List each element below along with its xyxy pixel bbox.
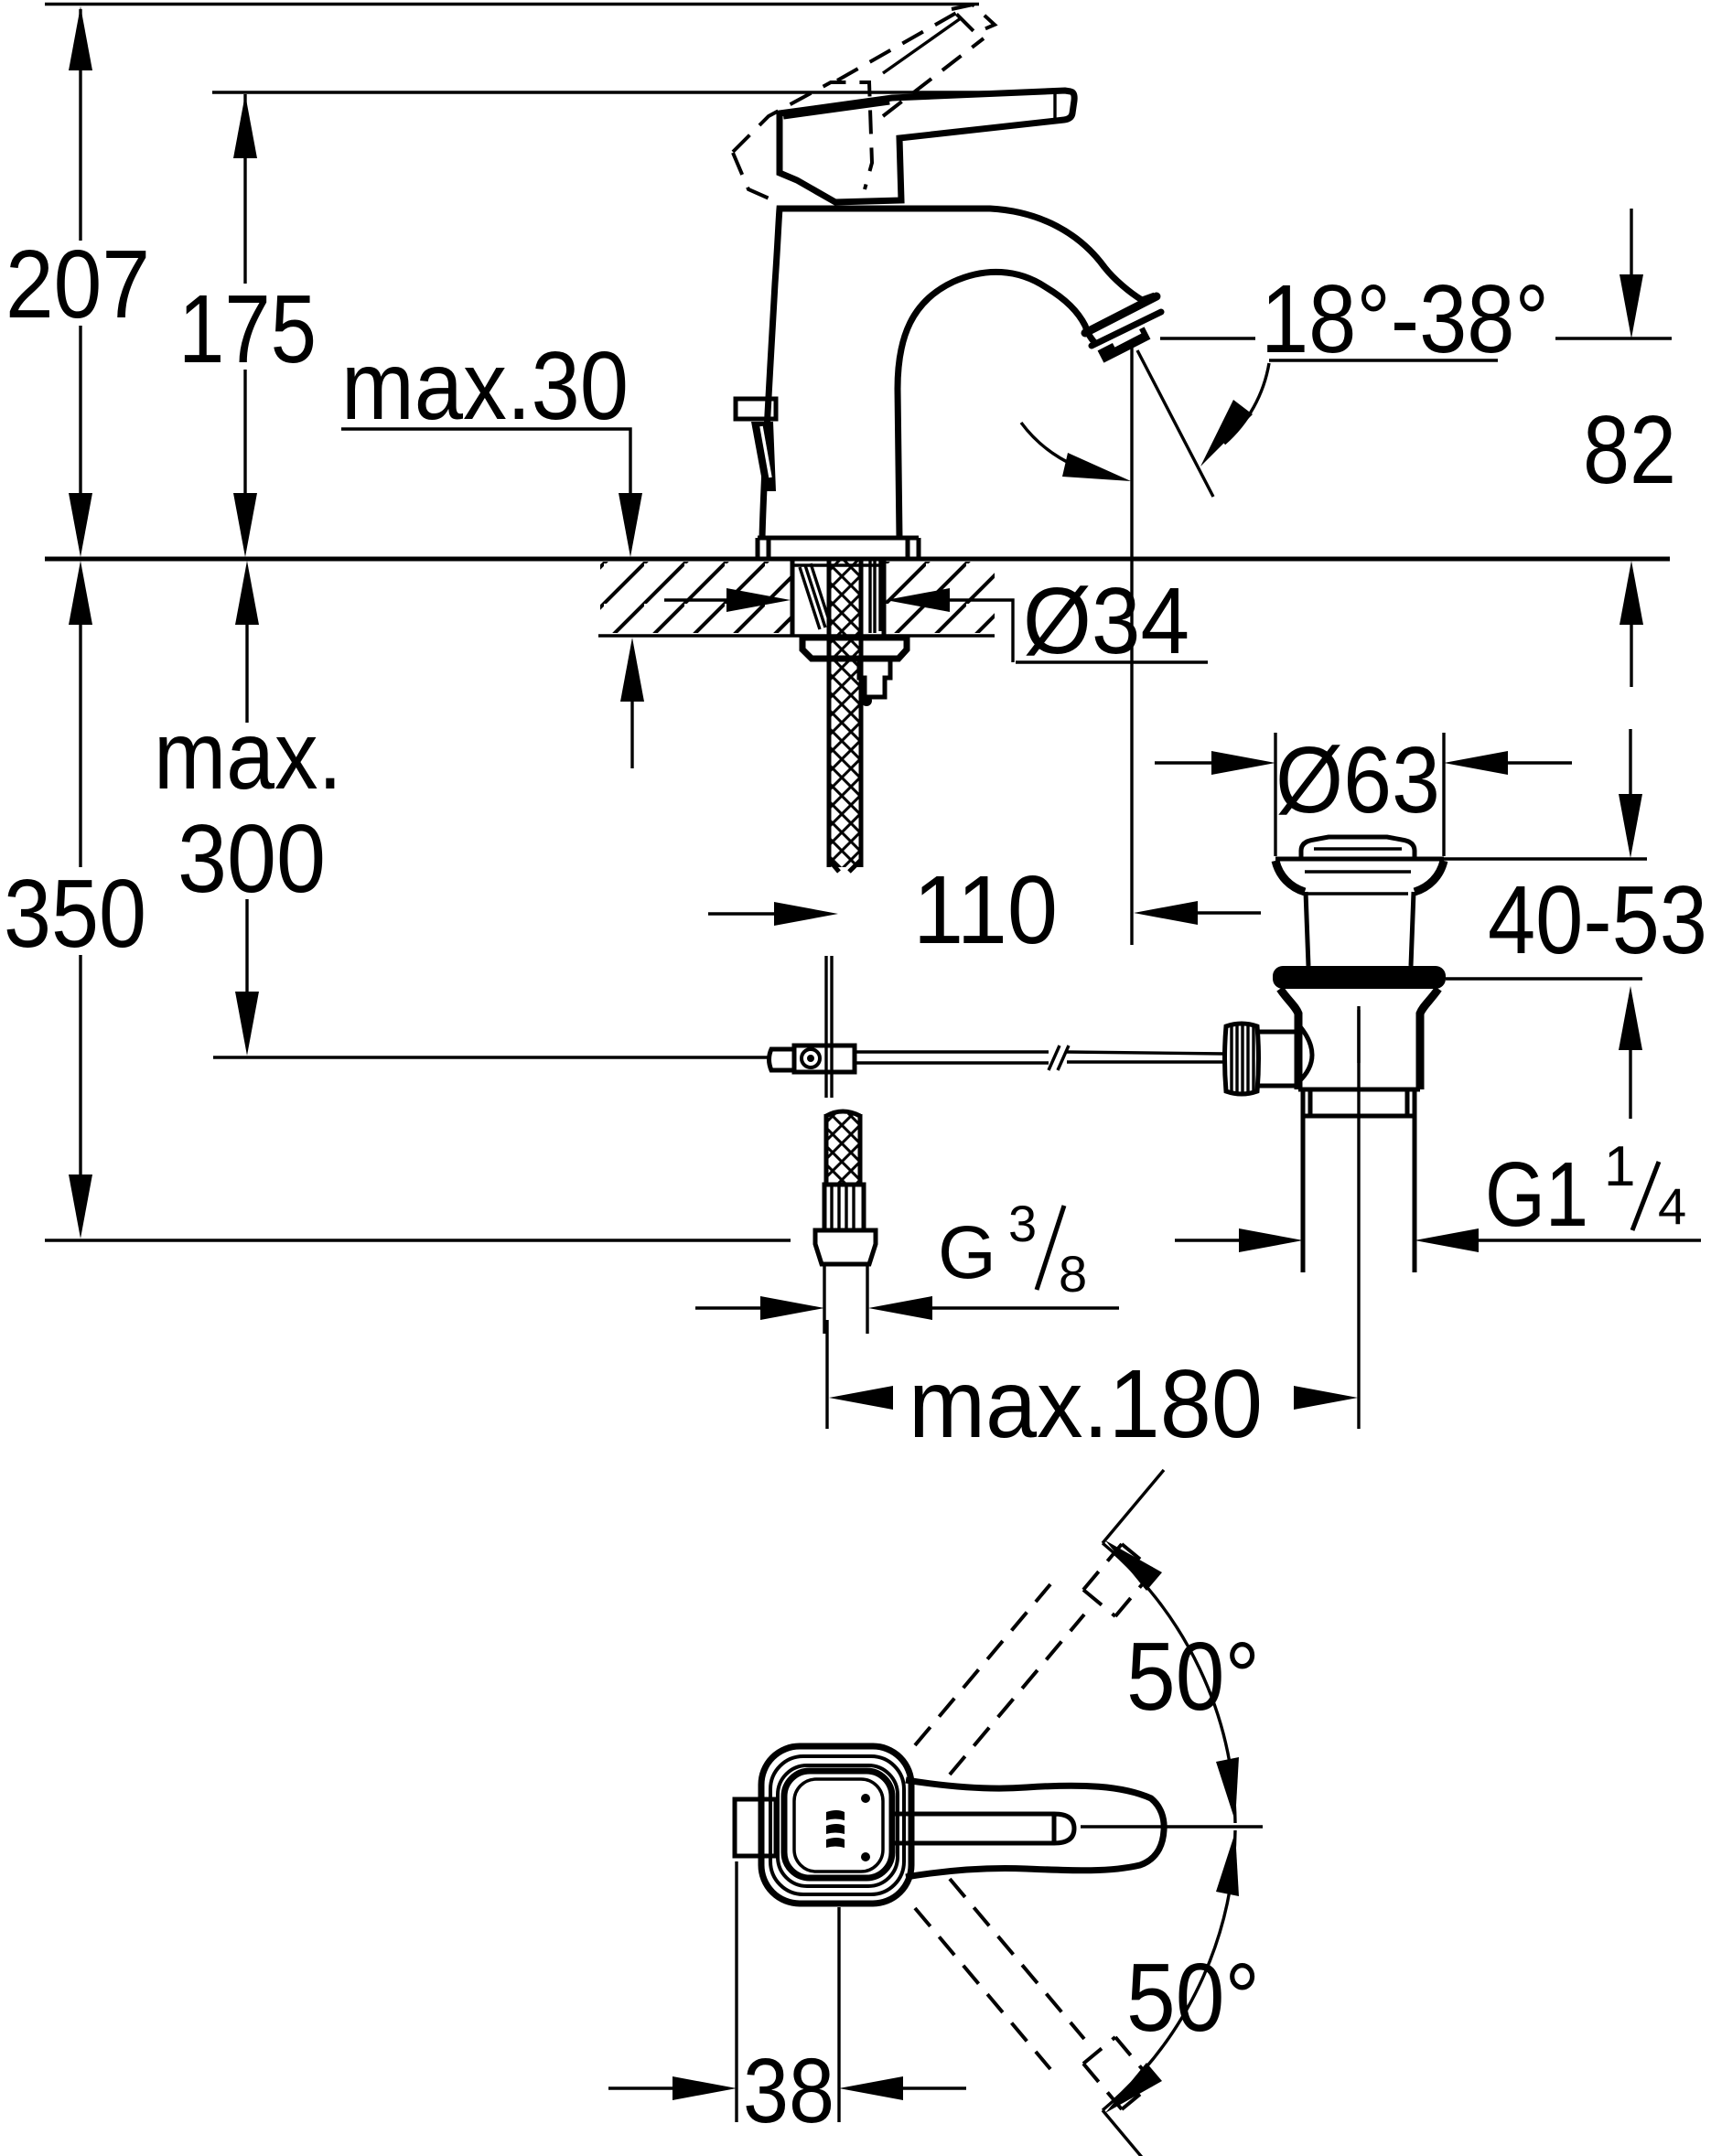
pop-up lever rod left end: [769, 1049, 795, 1070]
lever end cap line: [1053, 91, 1056, 119]
dim 40-53: [1443, 857, 1647, 860]
dim 175 vertical line: [243, 94, 246, 495]
50 deg arc lower: [1103, 1830, 1235, 2110]
handle body top view: [906, 1780, 1164, 1877]
extension line down: [1103, 2110, 1164, 2156]
dimension line 207 top reference: [45, 3, 979, 5]
dashed handle raised lever: [837, 12, 984, 116]
svg-text:max.: max.: [154, 702, 342, 810]
svg-text:50°: 50°: [1126, 1944, 1260, 2052]
svg-text:300: 300: [178, 805, 326, 913]
svg-text:50°: 50°: [1126, 1623, 1260, 1731]
dim 38: [737, 1861, 839, 2122]
svg-text:Ø34: Ø34: [1023, 568, 1189, 673]
rod level reference line max300: [213, 1056, 771, 1058]
water flow direction line: [1137, 350, 1213, 497]
dim max300 vertical line: [245, 625, 248, 993]
drain centerline: [1357, 1010, 1360, 1063]
clamping wedge lines: [800, 563, 831, 629]
grohe logo mark: [826, 1810, 845, 1848]
svg-text:G1: G1: [1485, 1143, 1588, 1246]
countertop top line: [45, 557, 1670, 562]
dim 207 vertical line: [79, 9, 81, 495]
dim 350 vertical line: [79, 625, 81, 1176]
svg-text:8: 8: [1059, 1245, 1087, 1303]
horizontal lever rod: [855, 1052, 1049, 1063]
handle block top thick edge: [783, 101, 889, 115]
svg-text:max.180: max.180: [909, 1350, 1263, 1458]
svg-text:40-53: 40-53: [1488, 866, 1707, 974]
svg-text:4: 4: [1658, 1177, 1686, 1235]
dim 82 arrows: [1630, 209, 1632, 274]
shank right tube: [870, 560, 880, 633]
flange inner lines: [1305, 872, 1411, 894]
svg-text:3: 3: [1008, 1195, 1037, 1252]
supply tube: [824, 1264, 867, 1334]
spout head face: [1085, 296, 1157, 333]
centerline: [1081, 1825, 1263, 1828]
lower bracket: [859, 659, 890, 697]
svg-text:110: 110: [913, 856, 1058, 964]
drain flange sides: [1275, 861, 1444, 892]
countertop bottom line: [598, 634, 995, 637]
handle lever shaft: [895, 1814, 1054, 1843]
faucet body outline: [762, 209, 1155, 538]
svg-text:82: 82: [1583, 396, 1676, 504]
dashed lever rotated down: [915, 1879, 1084, 2069]
hose connector ribbed nut: [824, 1185, 864, 1230]
mounting hole top edge: [792, 563, 884, 566]
svg-text:max.30: max.30: [341, 332, 629, 440]
pop-up waste push button: [1301, 837, 1415, 857]
pop-up lever pivot block: [794, 1046, 855, 1072]
dim G1 1/4: [1175, 1239, 1239, 1241]
pop-up rod knob on body: [736, 399, 776, 419]
dashed cap down: [1083, 2037, 1154, 2109]
extension line up: [1103, 1470, 1164, 1543]
svg-text:38: 38: [743, 2040, 834, 2142]
hex nut G3/8: [815, 1230, 876, 1264]
pop-up vertical rod: [826, 956, 832, 1098]
lever shaft end cap: [1054, 1814, 1074, 1843]
dashed handle raised block: [733, 82, 872, 189]
tailpipe: [1303, 1116, 1415, 1272]
flexible hose crosshatch: [826, 1114, 860, 1185]
counter hatch right: [886, 562, 995, 633]
drain neck: [1306, 892, 1414, 966]
aerator mousseur band: [1101, 333, 1147, 357]
ball joint arc: [1298, 1024, 1312, 1082]
mounting hole walls: [792, 560, 884, 635]
bottom reference line 350: [45, 1239, 791, 1241]
drain body below washer: [1280, 989, 1438, 1089]
drain flange top line: [1275, 857, 1444, 862]
threaded shank crosshatch: [829, 560, 861, 867]
spout inner curve: [898, 272, 1097, 538]
dim G3/8: [695, 1306, 760, 1309]
mounting nut below counter: [802, 638, 907, 659]
knurled adjuster knob: [1225, 1024, 1259, 1094]
rubber washer: [1273, 966, 1446, 989]
dim 110 arrows: [708, 912, 774, 915]
dashed cap up: [1083, 1544, 1154, 1616]
svg-text:350: 350: [4, 860, 146, 968]
escutcheon outer shell: [761, 1746, 911, 1904]
knob connector: [1257, 1032, 1295, 1086]
svg-text:175: 175: [178, 275, 317, 383]
spout angle vertical extension line: [1130, 348, 1133, 945]
escutcheon screw dots: [861, 1794, 870, 1803]
dashed lever rotated up: [915, 1584, 1084, 1775]
50 deg arc upper: [1103, 1543, 1235, 1823]
base plinth: [758, 538, 919, 557]
tailpiece ring: [1298, 1089, 1420, 1116]
svg-text:Ø63: Ø63: [1275, 727, 1440, 832]
handle block: [780, 91, 1074, 202]
max30 under-counter arrow: [620, 638, 644, 702]
svg-text:1: 1: [1604, 1135, 1635, 1198]
dashed lever end cap: [952, 5, 995, 33]
dim Ø34 leader and arrows: [664, 598, 726, 601]
dim Ø63 extension lines and arrows: [1275, 733, 1444, 856]
svg-text:G: G: [938, 1211, 996, 1294]
svg-text:18°-38°: 18°-38°: [1261, 265, 1549, 373]
svg-text:207: 207: [5, 231, 150, 338]
dim max.180: [827, 1006, 1359, 1429]
top view spout stub: [735, 1799, 776, 1856]
counter hatch left: [600, 562, 791, 633]
angle arc with arrows: [1021, 423, 1109, 476]
dimension line 175 reference: [212, 91, 1038, 93]
